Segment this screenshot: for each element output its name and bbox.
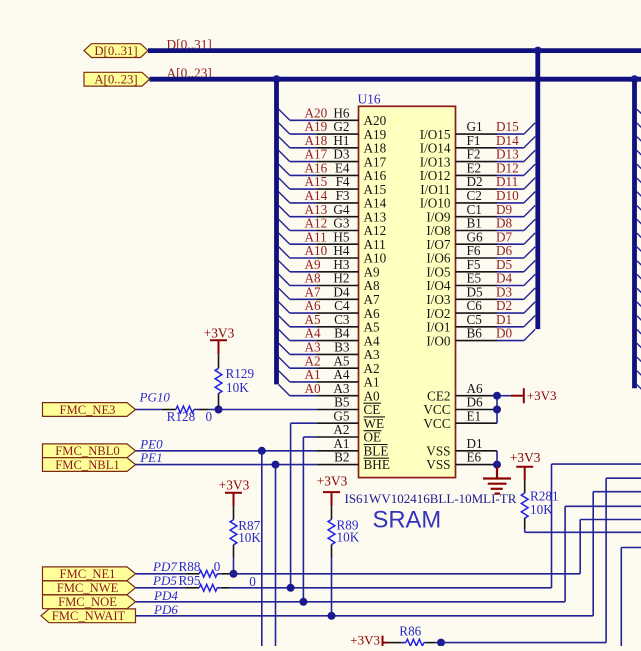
pin D5 (I/O3) [456, 298, 498, 300]
svg-text:H5: H5 [333, 229, 350, 244]
wire D4 [497, 285, 524, 287]
svg-text:A13: A13 [364, 209, 387, 224]
bus entry D7 [524, 233, 535, 244]
svg-text:H6: H6 [333, 105, 350, 120]
bus entry A0 [279, 385, 290, 396]
bus entry D4 [524, 274, 535, 285]
svg-text:FMC_NE3: FMC_NE3 [60, 403, 116, 417]
bus entry D10 [524, 192, 535, 203]
pin B2 (BHE) [317, 464, 359, 466]
svg-text:D9: D9 [496, 202, 513, 217]
svg-text:R128: R128 [167, 409, 196, 424]
bus entry A4 [279, 329, 290, 340]
wire FMC_NE3 [136, 409, 163, 411]
bus entry A14 [279, 192, 290, 203]
svg-text:I/O7: I/O7 [426, 237, 451, 252]
svg-text:A18: A18 [305, 133, 328, 148]
wire NWE exit right [552, 463, 641, 465]
wire NE1 to right [230, 573, 580, 575]
wire A12 [290, 230, 317, 232]
wire R86 exit right [606, 477, 641, 479]
svg-text:G6: G6 [467, 229, 484, 244]
svg-text:C5: C5 [467, 312, 483, 327]
svg-text:E6: E6 [467, 450, 482, 465]
wire D6 [497, 257, 524, 259]
svg-text:A14: A14 [364, 196, 387, 211]
bus entry A17 [279, 150, 290, 161]
wire FMC_NBL0/BLE [136, 450, 317, 452]
wire NWE to right [230, 587, 552, 589]
bus entry A5 right [637, 316, 641, 323]
pin B4 (A4) [317, 340, 359, 342]
svg-text:D1: D1 [467, 436, 483, 451]
power +3V3 (VCC) horizontal [511, 388, 524, 403]
bus entry A7 [279, 288, 290, 299]
bus entry A2 right [637, 357, 641, 364]
pin F3 (A14) [317, 202, 359, 204]
bus entry A12 right [637, 219, 641, 226]
svg-text:I/O9: I/O9 [426, 209, 451, 224]
svg-text:I/O0: I/O0 [426, 333, 451, 348]
svg-text:G4: G4 [333, 202, 350, 217]
svg-text:+3V3: +3V3 [317, 473, 348, 488]
bus entry A11 [279, 233, 290, 244]
wire NOE vertical [564, 506, 566, 602]
svg-text:+3V3: +3V3 [510, 450, 541, 465]
port FMC_NOE [43, 595, 136, 609]
junction VSS E6 [493, 461, 501, 469]
wire D3 [497, 298, 524, 300]
pin E4 (A16) [317, 174, 359, 176]
svg-text:A5: A5 [364, 320, 381, 335]
svg-text:R95: R95 [179, 573, 201, 588]
svg-text:A0: A0 [364, 388, 381, 403]
resistor R88 0R [185, 573, 199, 575]
pin H2 (A8) [317, 285, 359, 287]
port FMC_NE1 [43, 567, 136, 581]
pin H3 (A9) [317, 271, 359, 273]
pin H5 (A11) [317, 243, 359, 245]
bus entry A10 [279, 247, 290, 258]
svg-text:A8: A8 [364, 278, 381, 293]
svg-text:+3V3: +3V3 [527, 388, 557, 403]
pin G6 (I/O7) [456, 243, 498, 245]
wire WE [291, 422, 317, 424]
bus entry A0 right [637, 385, 641, 392]
svg-text:OE: OE [364, 430, 382, 445]
svg-text:PD6: PD6 [153, 602, 178, 617]
pin C6 (I/O2) [456, 312, 498, 314]
wire A9 [290, 271, 317, 273]
svg-text:I/O6: I/O6 [426, 251, 451, 266]
svg-text:A11: A11 [364, 237, 386, 252]
wire A8 [290, 285, 317, 287]
wire A18 [290, 147, 317, 149]
wire WE vertical [290, 423, 292, 588]
svg-text:FMC_NOE: FMC_NOE [58, 595, 117, 609]
wire D13 [497, 161, 524, 163]
svg-text:A3: A3 [305, 340, 322, 355]
port D[0..31] [84, 44, 148, 58]
bus A vertical left [274, 79, 279, 384]
pin E6 (VSS) [456, 464, 498, 466]
svg-text:PD7: PD7 [152, 559, 177, 574]
bus A[0..23] [150, 77, 641, 82]
bus entry A20 right [637, 109, 641, 116]
pin A3 (A0) [317, 395, 359, 397]
pin B1 (I/O8) [456, 230, 498, 232]
wire CE2 to +3V3 [497, 395, 511, 397]
bus entry A1 right [637, 371, 641, 378]
bus entry D11 [524, 178, 535, 189]
bus entry A13 [279, 206, 290, 217]
pin C3 (A5) [317, 326, 359, 328]
svg-text:I/O3: I/O3 [426, 292, 451, 307]
svg-text:E5: E5 [467, 271, 482, 286]
svg-text:PD4: PD4 [153, 588, 178, 603]
svg-text:FMC_NWAIT: FMC_NWAIT [52, 609, 126, 623]
bus entry A11 right [637, 233, 641, 240]
pin F5 (I/O5) [456, 271, 498, 273]
resistor R86 [388, 642, 402, 644]
wire NE1 exit right [580, 519, 641, 521]
pin G5 (WE) [317, 422, 359, 424]
junction R87/R88 [230, 570, 238, 578]
svg-text:D5: D5 [467, 284, 484, 299]
junction A-bus left drop [273, 75, 281, 83]
wire FMC_NOE [136, 601, 566, 603]
svg-text:C3: C3 [334, 312, 350, 327]
svg-text:PE1: PE1 [139, 450, 162, 465]
bus entry A13 right [637, 206, 641, 213]
svg-text:R86: R86 [399, 624, 421, 639]
bus entry A15 [279, 178, 290, 189]
bus entry A8 right [637, 274, 641, 281]
wire A16 [290, 174, 317, 176]
svg-text:F3: F3 [336, 188, 350, 203]
pin F1 (I/O14) [456, 147, 498, 149]
wire A7 [290, 298, 317, 300]
wire PE1 vertical [275, 465, 277, 646]
wire D1 [497, 326, 524, 328]
svg-text:G5: G5 [333, 408, 350, 423]
bus entry A15 right [637, 178, 641, 185]
wire to CE pin [219, 409, 317, 411]
wire D7 [497, 243, 524, 245]
pin H1 (A18) [317, 147, 359, 149]
svg-text:A10: A10 [305, 243, 328, 258]
svg-text:I/O10: I/O10 [420, 196, 451, 211]
svg-text:A0: A0 [305, 381, 322, 396]
svg-text:A17: A17 [305, 147, 328, 162]
svg-text:D4: D4 [496, 271, 513, 286]
pin F4 (A15) [317, 188, 359, 190]
svg-text:R88: R88 [179, 559, 201, 574]
bus entry D13 [524, 150, 535, 161]
pin C1 (I/O9) [456, 216, 498, 218]
svg-text:D13: D13 [496, 147, 519, 162]
bus entry D2 [524, 302, 535, 313]
svg-text:I/O1: I/O1 [426, 320, 450, 335]
svg-text:D3: D3 [333, 147, 350, 162]
svg-text:C1: C1 [467, 202, 482, 217]
power +3V3 (R86) horizontal [383, 636, 388, 650]
svg-text:PD5: PD5 [152, 573, 177, 588]
bus entry A9 [279, 261, 290, 272]
bus entry A4 right [637, 330, 641, 337]
junction PE1 [272, 461, 280, 469]
wire A15 [290, 188, 317, 190]
svg-text:SRAM: SRAM [373, 507, 442, 534]
junction OE/NOE [299, 598, 307, 606]
bus entry A18 right [637, 137, 641, 144]
wire PE0 vertical [261, 451, 263, 646]
bus entry A16 [279, 164, 290, 175]
svg-text:A4: A4 [305, 326, 322, 341]
bus entry A2 [279, 357, 290, 368]
bus entry A18 [279, 137, 290, 148]
wire D11 [497, 188, 524, 190]
svg-text:A7: A7 [305, 284, 322, 299]
svg-text:D14: D14 [496, 133, 519, 148]
svg-text:D7: D7 [496, 229, 513, 244]
bus entry D15 [524, 123, 535, 134]
wire FMC_NWAIT [136, 615, 594, 617]
svg-text:FMC_NWE: FMC_NWE [57, 581, 119, 595]
pin E2 (I/O12) [456, 174, 498, 176]
bus entry A6 right [637, 302, 641, 309]
wire D12 [497, 174, 524, 176]
pin B3 (A3) [317, 353, 359, 355]
wire D15 [497, 133, 524, 135]
pin A2 (OE) [317, 436, 359, 438]
wire A6 [290, 312, 317, 314]
bus entry A14 right [637, 192, 641, 199]
pin E1 (VCC) [456, 422, 498, 424]
svg-text:H4: H4 [333, 243, 350, 258]
svg-text:R129: R129 [226, 366, 255, 381]
bus A vertical right [632, 79, 637, 388]
IC U16 body [359, 106, 456, 477]
svg-text:A7: A7 [364, 292, 381, 307]
port FMC_NWE [43, 581, 136, 595]
junction CE2/VCC [493, 392, 501, 400]
svg-text:A11: A11 [305, 229, 327, 244]
svg-text:U16: U16 [358, 92, 381, 107]
svg-text:A18: A18 [364, 141, 387, 156]
svg-text:B3: B3 [334, 340, 350, 355]
svg-text:A5: A5 [305, 312, 322, 327]
pin C4 (A6) [317, 312, 359, 314]
pin F2 (I/O13) [456, 161, 498, 163]
pin A1 (BLE) [317, 450, 359, 452]
svg-text:I/O13: I/O13 [420, 154, 451, 169]
pin F6 (I/O6) [456, 257, 498, 259]
wire VCC tie vertical [496, 396, 498, 424]
pin G1 (I/O15) [456, 133, 498, 135]
resistor R128 0R [162, 409, 176, 411]
junction D-bus drop [534, 47, 542, 55]
svg-text:A1: A1 [333, 436, 349, 451]
power +3V3 (R87) [225, 493, 242, 507]
pin B5 (CE) [317, 409, 359, 411]
ground symbol [496, 451, 498, 467]
wire R281 exit right [525, 531, 641, 533]
svg-text:A8: A8 [305, 271, 322, 286]
wire D0 [497, 340, 524, 342]
svg-text:0: 0 [206, 409, 213, 424]
svg-text:D11: D11 [496, 174, 518, 189]
pin G3 (A12) [317, 230, 359, 232]
wire D5 [497, 271, 524, 273]
svg-text:WE: WE [364, 416, 385, 431]
svg-text:D1: D1 [496, 312, 512, 327]
wire A3 [290, 353, 317, 355]
svg-text:+3V3: +3V3 [350, 632, 380, 646]
pin H6 (A20) [317, 119, 359, 121]
svg-text:A15: A15 [305, 174, 328, 189]
svg-text:10K: 10K [226, 380, 249, 395]
svg-text:A14: A14 [305, 188, 328, 203]
wire NWAIT exit right [593, 491, 641, 493]
wire A4 [290, 340, 317, 342]
bus entry A19 [279, 123, 290, 134]
junction VCC D6 [493, 406, 501, 414]
junction WE/NWE [287, 584, 295, 592]
bus entry D9 [524, 205, 535, 216]
wire FMC_NE1 [136, 573, 186, 575]
svg-text:F2: F2 [467, 147, 481, 162]
wire D8 [497, 230, 524, 232]
wire NWE vertical [551, 464, 553, 588]
bus entry A20 [279, 109, 290, 120]
svg-text:CE2: CE2 [427, 388, 450, 403]
pin C2 (I/O10) [456, 202, 498, 204]
wire entering right edge [621, 547, 641, 549]
wire D2 [497, 312, 524, 314]
svg-text:F1: F1 [467, 133, 481, 148]
svg-text:10K: 10K [238, 530, 261, 545]
bus entry A1 [279, 371, 290, 382]
wire R86 to right [436, 642, 606, 644]
svg-text:PG10: PG10 [139, 390, 171, 405]
svg-text:BHE: BHE [364, 457, 390, 472]
bus entry D0 [524, 329, 535, 340]
svg-text:FMC_NBL1: FMC_NBL1 [55, 458, 119, 472]
wire FMC_NBL1/BHE [136, 464, 317, 466]
junction R128/R129/CE [215, 406, 223, 414]
svg-text:D3: D3 [496, 284, 513, 299]
svg-text:A4: A4 [364, 333, 381, 348]
pin A6 (CE2) [456, 395, 498, 397]
wire A1 [290, 381, 317, 383]
pin D4 (A7) [317, 298, 359, 300]
svg-text:FMC_NE1: FMC_NE1 [60, 567, 116, 581]
svg-text:0: 0 [214, 559, 221, 574]
svg-text:A[0..23]: A[0..23] [94, 73, 137, 87]
port FMC_NBL0 [43, 444, 136, 458]
svg-text:H2: H2 [333, 271, 349, 286]
power +3V3 (R281) [516, 467, 533, 481]
svg-text:I/O4: I/O4 [426, 278, 451, 293]
svg-text:A4: A4 [333, 367, 350, 382]
svg-text:A3: A3 [333, 381, 350, 396]
bus entry A7 right [637, 288, 641, 295]
svg-text:FMC_NBL0: FMC_NBL0 [55, 444, 119, 458]
wire C6 vertical [620, 548, 622, 647]
wire FMC_NWE [136, 587, 186, 589]
svg-text:C2: C2 [467, 188, 482, 203]
bus D vertical [535, 51, 540, 330]
svg-text:D4: D4 [333, 284, 350, 299]
svg-text:A2: A2 [333, 422, 349, 437]
svg-text:A1: A1 [364, 375, 380, 390]
power +3V3 (R129) [210, 340, 227, 354]
wire A14 [290, 202, 317, 204]
bus entry A5 [279, 316, 290, 327]
svg-text:D[0..31]: D[0..31] [94, 44, 137, 58]
svg-text:H1: H1 [333, 133, 349, 148]
wire R86 vertical [605, 478, 607, 642]
svg-text:A10: A10 [364, 251, 387, 266]
svg-text:E1: E1 [467, 408, 482, 423]
bus entry A3 right [637, 343, 641, 350]
junction A-bus right drop [631, 75, 639, 83]
wire NOE exit right [565, 505, 641, 507]
bus entry A17 right [637, 151, 641, 158]
svg-text:A15: A15 [364, 182, 387, 197]
svg-text:D0: D0 [496, 326, 513, 341]
bus entry A6 [279, 302, 290, 313]
svg-text:D6: D6 [496, 243, 513, 258]
wire A5 [290, 326, 317, 328]
svg-text:A3: A3 [364, 347, 381, 362]
bus entry D1 [524, 316, 535, 327]
bus entry D8 [524, 219, 535, 230]
wire D10 [497, 202, 524, 204]
port FMC_NWAIT [41, 609, 136, 623]
wire NE1 vertical [579, 520, 581, 574]
svg-text:VSS: VSS [426, 457, 450, 472]
svg-text:A13: A13 [305, 202, 328, 217]
wire A11 [290, 243, 317, 245]
pin C5 (I/O1) [456, 326, 498, 328]
junction R89/NWAIT [328, 612, 336, 620]
wire A0 [290, 395, 317, 397]
wire A17 [290, 161, 317, 163]
resistor R95 0R [185, 587, 199, 589]
junction R86 [437, 639, 445, 647]
pin A5 (A2) [317, 367, 359, 369]
wire A2 [290, 367, 317, 369]
wire A13 [290, 216, 317, 218]
wire OE [303, 436, 316, 438]
pin D2 (I/O11) [456, 188, 498, 190]
port FMC_NBL1 [43, 458, 136, 472]
svg-text:10K: 10K [337, 530, 360, 545]
bus D[0..31] [148, 48, 641, 53]
pin E5 (I/O4) [456, 285, 498, 287]
wire OE vertical [302, 437, 304, 602]
bus entry A16 right [637, 164, 641, 171]
svg-text:0: 0 [249, 574, 256, 589]
svg-text:+3V3: +3V3 [204, 325, 235, 340]
svg-text:A17: A17 [364, 154, 387, 169]
svg-text:B2: B2 [334, 450, 349, 465]
bus entry D3 [524, 288, 535, 299]
wire A20 [290, 119, 317, 121]
power +3V3 (R89) [323, 492, 340, 506]
